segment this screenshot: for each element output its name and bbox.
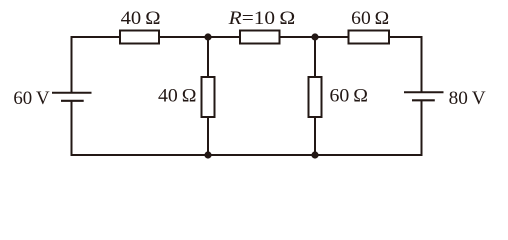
svg-text:60 Ω: 60 Ω (330, 86, 369, 107)
svg-text:R=10 Ω: R=10 Ω (228, 8, 296, 29)
svg-text:80 V: 80 V (449, 88, 486, 109)
svg-text:40 Ω: 40 Ω (158, 86, 197, 107)
svg-text:40 Ω: 40 Ω (121, 8, 161, 29)
svg-text:60 V: 60 V (13, 88, 49, 109)
svg-text:60 Ω: 60 Ω (351, 8, 389, 29)
